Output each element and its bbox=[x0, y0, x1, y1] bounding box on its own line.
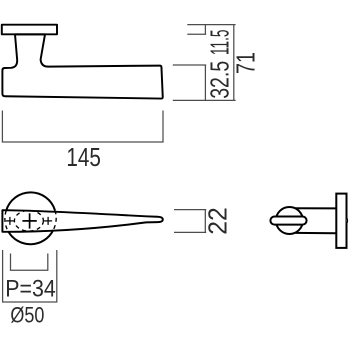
svg-text:71: 71 bbox=[231, 52, 261, 74]
svg-text:Ø50: Ø50 bbox=[10, 303, 44, 328]
svg-text:P=34: P=34 bbox=[5, 276, 56, 303]
svg-text:145: 145 bbox=[66, 144, 101, 172]
svg-text:22: 22 bbox=[202, 207, 232, 235]
svg-text:11.5: 11.5 bbox=[205, 30, 235, 56]
